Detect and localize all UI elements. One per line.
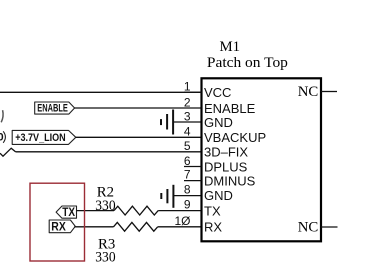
svg-text:330: 330 bbox=[95, 198, 115, 214]
pin 6 DPLUS bbox=[184, 154, 248, 175]
wire TX flag to R2 bbox=[77, 210, 115, 212]
svg-text:ENABLE: ENABLE bbox=[204, 101, 256, 116]
svg-text:RX: RX bbox=[204, 220, 222, 235]
svg-text:7: 7 bbox=[184, 167, 191, 181]
pin 10 RX bbox=[174, 214, 222, 235]
svg-text:9: 9 bbox=[184, 197, 191, 211]
svg-text:VCC: VCC bbox=[204, 85, 231, 100]
svg-text:6: 6 bbox=[184, 154, 191, 168]
resistor R1 (cut off at left edge) bbox=[0, 148, 16, 156]
off-page flag ENABLE bbox=[35, 102, 75, 115]
svg-text:8: 8 bbox=[184, 182, 191, 196]
svg-text:RX: RX bbox=[51, 220, 66, 234]
wire R2 to chip pin9 bbox=[158, 210, 201, 212]
pin 7 DMINUS bbox=[184, 167, 256, 188]
svg-text:GND: GND bbox=[204, 188, 233, 203]
svg-text:M1: M1 bbox=[220, 39, 241, 55]
svg-text:TX: TX bbox=[204, 204, 221, 219]
svg-text:3D–FIX: 3D–FIX bbox=[204, 145, 248, 160]
pin 4 VBACKUP bbox=[184, 124, 266, 145]
svg-text:Patch on Top: Patch on Top bbox=[207, 55, 288, 71]
resistor R3 bbox=[114, 222, 158, 231]
pin NC top right bbox=[298, 84, 337, 100]
resistor R2 bbox=[114, 206, 158, 215]
svg-text:330: 330 bbox=[95, 250, 115, 266]
svg-text:0: 0 bbox=[0, 132, 4, 144]
pin NC bottom right bbox=[298, 219, 338, 235]
label R3 value 330 bbox=[95, 250, 115, 266]
wire pin5 3D-FIX net bbox=[16, 151, 202, 153]
partial flag tip at left edge (cut) bbox=[1, 110, 3, 122]
svg-text:TX: TX bbox=[62, 205, 75, 219]
partial label 0 with flag tip at left edge (cut) bbox=[0, 131, 5, 143]
label R3 refdes bbox=[98, 237, 115, 253]
wire pin1 VCC net bbox=[0, 91, 202, 93]
wire RX flag to R3 bbox=[74, 226, 113, 228]
refdes M1 bbox=[220, 39, 241, 55]
svg-text:3: 3 bbox=[184, 109, 191, 123]
svg-text:+3.7V_LION: +3.7V_LION bbox=[15, 132, 66, 144]
wire R3 to chip pin10 bbox=[158, 226, 202, 228]
label R2 value 330 bbox=[95, 198, 115, 214]
wire pin4 VBACKUP to chip bbox=[76, 136, 202, 138]
IC M1 body bbox=[202, 78, 322, 241]
svg-text:DPLUS: DPLUS bbox=[204, 159, 248, 174]
svg-text:ENABLE: ENABLE bbox=[37, 103, 68, 115]
pin 5 3D-FIX bbox=[184, 139, 249, 160]
off-page flag RX bbox=[49, 220, 75, 234]
svg-text:VBACKUP: VBACKUP bbox=[204, 130, 266, 145]
label R2 refdes bbox=[97, 185, 114, 201]
value Patch on Top bbox=[207, 55, 288, 71]
svg-text:GND: GND bbox=[204, 115, 233, 130]
svg-text:NC: NC bbox=[298, 84, 319, 100]
svg-text:4: 4 bbox=[184, 124, 191, 138]
wire pin2 ENABLE to chip bbox=[75, 107, 202, 109]
svg-text:2: 2 bbox=[184, 95, 191, 109]
wire pin8 GND to chip bbox=[173, 195, 201, 197]
svg-text:DMINUS: DMINUS bbox=[204, 174, 256, 189]
svg-text:5: 5 bbox=[184, 139, 191, 153]
pin 8 GND bbox=[184, 182, 233, 203]
ground G2 at pin8 bbox=[161, 185, 173, 208]
off-page flag TX bbox=[56, 205, 76, 219]
power flag +3.7V_LION bbox=[12, 130, 76, 144]
pin 2 ENABLE bbox=[184, 95, 256, 116]
pin 9 TX bbox=[184, 197, 221, 218]
svg-text:NC: NC bbox=[298, 219, 319, 235]
svg-text:1Ø: 1Ø bbox=[174, 214, 190, 228]
svg-text:1: 1 bbox=[184, 80, 191, 94]
pin 3 GND bbox=[184, 109, 233, 130]
pin 1 VCC bbox=[184, 80, 232, 101]
ground G1 at pin3 bbox=[161, 110, 173, 135]
annotation red selection box bbox=[30, 183, 85, 261]
wire pin3 GND to chip bbox=[173, 121, 201, 123]
